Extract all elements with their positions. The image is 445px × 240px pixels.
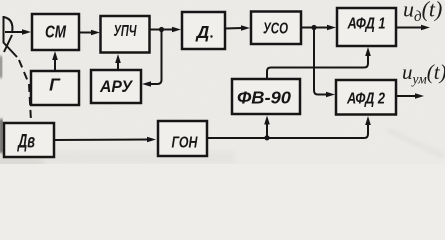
wire G to CM	[52, 51, 58, 71]
block CM	[32, 14, 79, 50]
scan smudge bottom-right diagonal	[388, 130, 445, 157]
block ARU	[91, 70, 141, 103]
block G	[31, 71, 79, 105]
wire D to USO	[225, 25, 250, 31]
wire USO to AFD1	[301, 25, 336, 31]
block UPCH	[101, 16, 150, 53]
svg-text:Д: Д	[195, 22, 210, 42]
svg-text:УСО: УСО	[263, 21, 288, 38]
node after USO	[311, 25, 316, 30]
block AFD2	[336, 80, 396, 115]
block FV-90	[232, 79, 300, 114]
block Dv	[4, 123, 54, 157]
block USO	[251, 12, 301, 45]
wire antenna to CM	[5, 29, 31, 35]
wire node up to FV-90	[264, 116, 270, 138]
wire FV-90 to AFD1	[267, 47, 371, 79]
mech dashed link antenna to Dv	[19, 60, 31, 121]
wire ARU to UPCH	[115, 54, 121, 70]
scan left-edge mark lower	[0, 119, 3, 153]
svg-text:АФД 2: АФД 2	[346, 91, 385, 108]
node after UPCH	[159, 27, 164, 32]
svg-text:СМ: СМ	[45, 22, 66, 42]
wire CM to UPCH	[79, 30, 100, 36]
output wire AFD2	[396, 93, 424, 99]
block D	[182, 12, 225, 49]
svg-text:ГОН: ГОН	[172, 135, 199, 152]
svg-text:Г: Г	[49, 75, 61, 95]
svg-text:uд(t): uд(t)	[403, 0, 442, 25]
wire junction down to AFD2	[314, 29, 335, 97]
svg-text:ФВ-90: ФВ-90	[237, 88, 291, 108]
wire UPCH to D	[150, 27, 182, 33]
scan wash bottom-left	[0, 151, 235, 164]
scan left-edge mark upper	[0, 56, 2, 78]
block GON	[158, 121, 207, 156]
svg-text:Дв: Дв	[17, 132, 35, 153]
output wire AFD1	[396, 25, 430, 31]
svg-text:АФД 1: АФД 1	[347, 16, 386, 33]
scan smudge bottom-left corner	[0, 156, 46, 170]
svg-text:УПЧ: УПЧ	[114, 23, 138, 40]
svg-text:АРУ: АРУ	[99, 78, 134, 96]
node on reference line	[264, 135, 269, 140]
wire Dv to GON	[54, 137, 156, 143]
wire GON reference line to AFD2	[207, 116, 371, 138]
wire junction down to ARU	[142, 31, 162, 87]
block AFD1	[337, 8, 396, 46]
antenna	[3, 16, 17, 57]
